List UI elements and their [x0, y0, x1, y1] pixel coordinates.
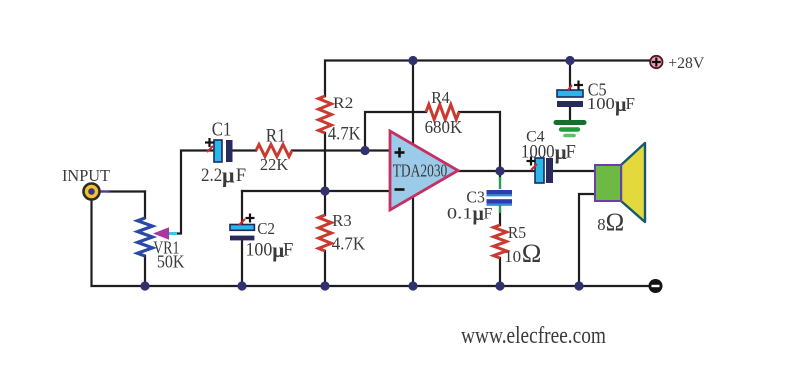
svg-text:Ω: Ω — [522, 238, 542, 268]
svg-text:F: F — [566, 141, 576, 162]
svg-text:R1: R1 — [266, 126, 286, 147]
svg-text:INPUT: INPUT — [62, 166, 110, 185]
svg-text:F: F — [484, 205, 493, 222]
svg-text:4.7K: 4.7K — [328, 123, 361, 144]
svg-text:R3: R3 — [332, 211, 351, 230]
svg-text:C2: C2 — [257, 219, 275, 238]
svg-text:C1: C1 — [212, 119, 232, 141]
svg-text:F: F — [626, 94, 635, 113]
svg-text:+28V: +28V — [668, 55, 705, 72]
svg-text:TDA2030: TDA2030 — [393, 161, 448, 181]
svg-text:0.1: 0.1 — [447, 205, 473, 222]
svg-text:www.elecfree.com: www.elecfree.com — [461, 323, 606, 349]
svg-text:F: F — [283, 239, 293, 260]
svg-text:F: F — [236, 165, 246, 186]
svg-text:50K: 50K — [157, 251, 185, 271]
svg-text:22K: 22K — [260, 155, 289, 174]
svg-text:μ: μ — [222, 163, 235, 188]
svg-text:4.7K: 4.7K — [332, 234, 366, 254]
svg-text:Ω: Ω — [606, 209, 625, 236]
svg-text:R2: R2 — [333, 93, 353, 112]
svg-text:R4: R4 — [431, 88, 450, 107]
svg-text:1000: 1000 — [521, 141, 555, 162]
svg-text:100: 100 — [246, 239, 273, 260]
svg-text:2.2: 2.2 — [201, 165, 222, 186]
svg-text:100: 100 — [587, 94, 615, 113]
svg-text:680K: 680K — [425, 117, 463, 137]
svg-text:10: 10 — [504, 247, 521, 266]
svg-text:8: 8 — [597, 215, 605, 234]
